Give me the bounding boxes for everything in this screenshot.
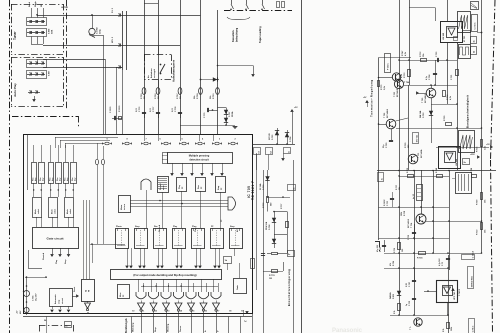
wire plus5v small [365, 100, 369, 103]
node box 2c [378, 173, 384, 182]
svg-text:mute: mute [162, 185, 165, 190]
wire net RL3 horizontal [37, 15, 201, 17]
op-amp U-autostop box [50, 289, 73, 307]
node box servo label [462, 255, 475, 260]
svg-text:C 731: C 731 [451, 74, 453, 80]
connector IC bottom pins [131, 317, 133, 333]
wire diode arrow right [201, 79, 220, 81]
op-amp U-C741 [437, 281, 458, 303]
wire y128 row [396, 128, 457, 130]
wire tape loading drop [217, 65, 253, 67]
diode D710 [267, 170, 269, 196]
diode D704 [287, 130, 289, 144]
op-amp U-ff-rew [196, 178, 206, 192]
svg-text:Multiple pressing: Multiple pressing [189, 155, 210, 158]
svg-text:T 705: T 705 [422, 97, 424, 103]
resistor R736 [419, 252, 426, 255]
op-amp U-ff2 [135, 229, 148, 249]
wire rail x447 mid [447, 42, 449, 104]
svg-text:R 1001: R 1001 [119, 105, 121, 112]
node waveform box square [459, 45, 471, 59]
svg-text:220µ: 220µ [100, 29, 102, 34]
wire rail x414 [414, 170, 416, 315]
svg-text:C 704: C 704 [32, 295, 35, 301]
wire gate out stop [68, 248, 70, 254]
wire y253 row [384, 253, 482, 255]
svg-text:R 707: R 707 [177, 93, 179, 99]
capacitor C778 [178, 112, 182, 114]
svg-text:Rew: Rew [198, 185, 200, 189]
svg-text:C 717: C 717 [380, 247, 382, 252]
resistor C731 [457, 60, 459, 85]
wire +5V arrow up [292, 112, 294, 144]
wire row y60 [399, 60, 457, 62]
svg-text:96 54A: 96 54A [259, 183, 262, 190]
op-amp U-rec-box [158, 177, 169, 193]
op-amp U-mute-ff box [118, 285, 130, 299]
svg-text:F F: F F [85, 289, 90, 293]
wire t705 base [418, 93, 426, 95]
resistor R716b [481, 140, 483, 147]
wire y268 row [384, 268, 448, 270]
svg-text:TC 9121 P: TC 9121 P [251, 180, 255, 200]
svg-text:Tonmotor-Regelung: Tonmotor-Regelung [370, 79, 374, 117]
wire multipress drops [172, 163, 174, 174]
svg-text:C 741 C: C 741 C [474, 22, 477, 30]
svg-text:R 747: R 747 [401, 50, 404, 56]
resistor R712b [408, 175, 414, 178]
svg-text:10µ 16V: 10µ 16V [36, 293, 38, 301]
svg-text:Automatic: Automatic [54, 293, 57, 304]
wire ic bottom-left bus [44, 313, 125, 315]
resistor R710b [481, 223, 483, 230]
resistor R709b [481, 193, 483, 200]
svg-text:BC 546-B: BC 546-B [407, 218, 410, 228]
svg-text:+5V: +5V [486, 144, 490, 146]
svg-text:R 706: R 706 [155, 93, 157, 99]
wire x252 vertical [252, 313, 254, 333]
wire r776 link [267, 203, 269, 212]
svg-text:Aufnahmesperre: Aufnahmesperre [172, 59, 176, 82]
svg-text:beleuchtung: beleuchtung [236, 27, 239, 42]
wire inverter outputs [141, 311, 143, 317]
wire autoplay out2 [43, 67, 122, 69]
wire y170 row [377, 170, 496, 172]
wire gate out rewind [52, 248, 54, 254]
connector autoplay pins row1 [27, 63, 45, 65]
svg-text:SR 529: SR 529 [269, 132, 271, 140]
svg-text:Stop: Stop [230, 225, 235, 228]
wire rail x447 top [447, 0, 449, 21]
svg-text:C 741 C: C 741 C [471, 325, 474, 332]
wire FF inputs [83, 200, 85, 279]
capacitor C707b [412, 280, 416, 282]
capacitor C777 [156, 112, 160, 114]
capacitor C708 [435, 60, 437, 85]
op-amp U-ff6 [211, 229, 224, 249]
node Tuner enclosure [11, 4, 63, 6]
svg-text:R 709: R 709 [213, 93, 215, 99]
wire y238 row [379, 238, 450, 240]
svg-text:R 708: R 708 [471, 168, 473, 173]
switch key row boxes [32, 163, 37, 184]
node label box right a [471, 37, 477, 44]
svg-text:D 704: D 704 [289, 136, 292, 142]
svg-text:T 704: T 704 [404, 81, 410, 84]
wire tuner top pins [31, 8, 33, 18]
svg-text:1M: 1M [269, 278, 272, 280]
wire arrow 7d [243, 310, 245, 316]
wire gate2 link [239, 263, 241, 278]
svg-text:4,7µ 16V: 4,7µ 16V [438, 258, 441, 266]
svg-text:SUB: SUB [52, 29, 54, 34]
svg-text:Panasonic: Panasonic [332, 328, 363, 333]
wire autoplay out1 [43, 59, 105, 61]
wire t706 links [379, 124, 387, 126]
wire x263 vertical [263, 170, 265, 333]
wire dash-dot inner border [66, 0, 68, 110]
svg-text:47µ 16V: 47µ 16V [376, 244, 379, 252]
svg-text:BC 548-B: BC 548-B [386, 108, 389, 118]
svg-text:LM 380: LM 380 [443, 32, 445, 40]
svg-text:circuit: circuit [61, 298, 64, 304]
capacitor C712 [414, 224, 416, 240]
svg-text:verriegelt: verriegelt [153, 69, 156, 78]
connector tape-loading pins [231, 0, 233, 4]
node box label bottom right [468, 267, 474, 289]
op-amp U-IC701 [441, 22, 463, 43]
svg-text:C 778: C 778 [175, 106, 177, 112]
op-amp U-ff-stop [216, 177, 226, 193]
svg-text:Rewind: Rewind [43, 252, 45, 260]
node box 7d2 [254, 148, 261, 155]
node label box right top [472, 15, 478, 32]
svg-text:C 711: C 711 [387, 201, 389, 206]
svg-text:R 705: R 705 [141, 93, 143, 99]
svg-text:C 712: C 712 [408, 235, 410, 240]
op-amp U-or1 [141, 179, 151, 190]
svg-text:D 915: D 915 [393, 294, 395, 299]
capacitor C776 [142, 112, 146, 114]
svg-text:R 9..: R 9.. [443, 328, 445, 332]
capacitor C779 [207, 108, 209, 112]
wire x293 vertical [293, 160, 295, 333]
wire autostop out [72, 296, 76, 298]
node pin networks row [105, 142, 109, 145]
svg-text:D 708: D 708 [269, 224, 271, 230]
svg-text:D 707: D 707 [229, 111, 231, 117]
svg-text:BC 548-B: BC 548-B [424, 93, 427, 103]
op-amp U-ff7 [230, 229, 243, 249]
svg-text:C 777: C 777 [153, 106, 155, 112]
wire tuner pin stubs bottom [31, 37, 33, 45]
wire y244 bus [90, 244, 125, 246]
op-amp U-gate-circuit box [33, 228, 79, 249]
svg-text:für: für [148, 75, 150, 78]
wire vertical bus x213 [217, 10, 219, 134]
resistor R776 [267, 197, 269, 203]
svg-text:T 703: T 703 [394, 92, 396, 97]
svg-text:Gate circuit: Gate circuit [46, 237, 63, 241]
svg-text:Wicklung: Wicklung [133, 322, 135, 332]
wire vertical bus x199 [200, 0, 202, 134]
capacitor C714 [448, 253, 450, 268]
inverter FF out [87, 301, 89, 303]
svg-text:R 719: R 719 [404, 211, 406, 216]
wire rail x482 link [477, 32, 482, 34]
connector autoplay pins row2 [27, 74, 45, 76]
switch mode-select boxes [33, 198, 42, 218]
diode D703 [429, 111, 433, 115]
svg-text:BC 548-B: BC 548-B [396, 88, 399, 97]
switch record-lock box [144, 54, 171, 56]
svg-text:Gate: Gate [236, 284, 239, 290]
svg-text:select: select [69, 209, 72, 214]
wire vertical drop a [105, 59, 107, 134]
svg-text:WA54A: WA54A [389, 292, 392, 299]
wire net MCL3 horizontal [43, 45, 180, 47]
transistor T704 [394, 79, 403, 88]
svg-text:C 1002: C 1002 [97, 26, 99, 34]
svg-text:C 776: C 776 [139, 106, 141, 112]
svg-text:hc 74: hc 74 [412, 194, 415, 199]
svg-text:C 741 B: C 741 B [458, 288, 461, 296]
connector board-edge column [122, 11, 124, 70]
node box small top right [471, 2, 479, 10]
wire rail x409 [409, 0, 411, 85]
wire y57 top link [379, 57, 412, 59]
transistor T703 [392, 73, 400, 81]
svg-text:SERVO REG: SERVO REG [471, 276, 473, 288]
svg-text:R 778: R 778 [269, 275, 275, 277]
svg-text:+25V: +25V [470, 154, 475, 156]
capacitor C713 [412, 298, 416, 300]
wire y104 link [431, 104, 457, 106]
svg-text:Auto Play: Auto Play [13, 83, 17, 97]
capacitor C1001 pair [112, 118, 122, 120]
svg-text:detection circuit: detection circuit [189, 159, 208, 162]
wire rail x421 [421, 170, 423, 214]
svg-text:T 714: T 714 [410, 222, 413, 228]
svg-text:Motor: Motor [120, 204, 123, 210]
wire y176 row [399, 176, 449, 178]
wire +25V arrow [477, 155, 480, 159]
svg-text:MCL 3: MCL 3 [112, 36, 114, 43]
svg-text:R 777: R 777 [281, 203, 283, 209]
wire ic right bus [252, 144, 295, 146]
svg-text:R 717: R 717 [396, 185, 398, 190]
svg-text:R 713: R 713 [404, 72, 406, 78]
transistor T715 [414, 318, 422, 326]
wire nested bus into matrix [27, 134, 29, 190]
wire right drops [256, 155, 258, 171]
wire C1002 drop [103, 35, 105, 134]
node box Ab [284, 148, 291, 154]
resistor R714 [431, 98, 433, 143]
svg-text:Wiederg.: Wiederg. [167, 323, 170, 332]
svg-text:R 720: R 720 [444, 115, 446, 121]
svg-text:C 708: C 708 [429, 74, 431, 80]
node label box right b [471, 47, 477, 55]
wire top entry 430 [430, 0, 432, 21]
wire y147 row [436, 147, 489, 149]
wire dash-dot corner [12, 116, 78, 118]
wire row y85 [404, 85, 457, 87]
wire C1002 stub [92, 15, 94, 28]
connector tuner pins row1 [27, 21, 45, 23]
node box 5c [288, 251, 295, 257]
svg-text:R 736: R 736 [417, 258, 423, 260]
resistor R928 [447, 323, 450, 329]
capacitor C1002 [89, 28, 95, 34]
svg-text:C 71: C 71 [442, 262, 444, 266]
svg-text:R 712: R 712 [420, 51, 422, 57]
svg-text:Stop: Stop [64, 259, 67, 264]
op-amp U-IC705 outline [24, 135, 253, 314]
op-amp U-IC702 [439, 147, 461, 169]
wire edge-to-right RL3 [127, 15, 145, 17]
op-amp U-gate2 [234, 279, 247, 294]
svg-text:Tape Loading: Tape Loading [258, 26, 262, 43]
node box 5b [288, 185, 296, 191]
svg-text:Wdgb: Wdgb [35, 1, 37, 7]
op-amp U-motor-to-turn [119, 196, 131, 213]
resistor R778 [261, 253, 265, 255]
wire vertical drop b [116, 67, 118, 134]
svg-text:C 705: C 705 [436, 51, 438, 57]
svg-text:Berührungsb.: Berührungsb. [126, 318, 128, 333]
node comb connector [456, 173, 472, 194]
wire rail x457 [457, 42, 459, 170]
wire rail x378 [378, 58, 380, 241]
inverter row [141, 301, 143, 304]
resistor R713 [408, 70, 411, 77]
wire rail x448 bottom [448, 255, 450, 333]
capacitor C709 [389, 140, 393, 142]
wire IC bottom parallel bus [23, 316, 252, 318]
svg-text:Mode: Mode [35, 209, 37, 214]
svg-text:WA 54A: WA 54A [419, 110, 422, 118]
svg-text:C 1001: C 1001 [110, 106, 112, 113]
wire vertical bus x144 [144, 0, 146, 134]
wire y221 row [426, 221, 482, 223]
op-amp U-dgate [228, 197, 236, 210]
svg-text:RD4 56A: RD4 56A [265, 221, 268, 230]
wire +5V arrow2 [451, 288, 455, 291]
svg-text:T 711: T 711 [418, 152, 420, 158]
wire upper-ff drops [146, 190, 148, 228]
wire left corner dashdot [375, 241, 379, 243]
svg-text:R 730: R 730 [405, 142, 407, 148]
op-amp U-nor row [136, 292, 146, 299]
op-amp U-ff3 [154, 229, 167, 249]
op-amp U-ff4 [173, 229, 186, 249]
svg-text:R 712: R 712 [407, 168, 409, 173]
svg-text:LM 380: LM 380 [456, 158, 458, 166]
diode D706 [218, 107, 227, 109]
wire rail x449 low [449, 170, 451, 270]
svg-text:R 714: R 714 [446, 94, 449, 100]
wire gate out play [60, 248, 62, 254]
svg-text:C 709: C 709 [386, 142, 388, 148]
op-amp U-ff-play [177, 178, 187, 192]
svg-text:T 706: T 706 [384, 112, 386, 118]
capacitor C717 [384, 240, 386, 252]
op-amp U-decoder box [111, 270, 222, 280]
svg-text:Stop: Stop [135, 225, 140, 228]
wire key row drops [33, 183, 35, 197]
wire c741 in [428, 291, 436, 293]
svg-text:Photo: Photo [116, 225, 122, 228]
wire rail x483 [481, 0, 483, 253]
svg-text:Aufnahme: Aufnahme [150, 67, 153, 78]
transistor T714 [416, 214, 426, 224]
wire top link [409, 7, 435, 9]
wire diode join [180, 125, 235, 127]
wire y315 row [390, 315, 448, 317]
op-amp U-ff1 [116, 229, 129, 249]
resistor R712 [421, 59, 427, 62]
svg-text:1µ: 1µ [406, 304, 408, 306]
node box 4b [251, 259, 255, 269]
node box 6d [266, 148, 273, 155]
node Auto-Play enclosure [11, 57, 63, 59]
wire ff-to-decoder drops [127, 248, 129, 266]
svg-text:0,33: 0,33 [406, 283, 408, 287]
svg-text:Mute: Mute [119, 293, 122, 297]
svg-text:to turn: to turn [123, 203, 126, 210]
resistor R705 oval [142, 88, 146, 95]
svg-text:T 7..: T 7.. [410, 326, 412, 330]
diode D705 [277, 128, 279, 144]
op-amp U-ff5 [192, 229, 205, 249]
wire decoder-to-gates drops [138, 279, 140, 292]
svg-text:R 775: R 775 [381, 84, 383, 90]
node waveform sawtooth 2 [459, 131, 475, 153]
svg-text:Mode: Mode [52, 209, 54, 214]
wire dash-dot chassis border left [9, 0, 11, 333]
wire ic left drop [28, 250, 30, 268]
wire vertical bus x180 [180, 0, 182, 134]
svg-text:C 779: C 779 [204, 112, 206, 118]
svg-text:D 705: D 705 [272, 134, 274, 140]
resistor R720 [446, 123, 452, 126]
svg-text:Ut 704: Ut 704 [61, 6, 68, 9]
svg-text:IC 701: IC 701 [464, 35, 466, 42]
wire y207 row [379, 207, 450, 209]
svg-text:Reset: Reset [73, 286, 76, 292]
svg-text:Pause: Pause [180, 325, 182, 332]
svg-text:R 776: R 776 [263, 202, 265, 208]
svg-text:select: select [54, 209, 57, 214]
svg-text:R 748: R 748 [435, 168, 438, 173]
wire record-lock stub [158, 45, 160, 55]
svg-text:Stop: Stop [154, 327, 157, 332]
wire vertical drop edge [122, 70, 124, 134]
node mini connector T747 [417, 185, 423, 201]
wire ic701 right link [462, 32, 470, 34]
svg-text:Einschaltverzögerung: Einschaltverzögerung [287, 269, 291, 306]
wire dash-dot border right [491, 0, 496, 160]
wire loop drop [274, 234, 276, 248]
svg-text:(For output mode deciding and: (For output mode deciding and flip-flop … [133, 273, 196, 277]
node waveform box sawtooth top [458, 12, 471, 33]
svg-text:R 716: R 716 [394, 248, 396, 253]
wire rail x433 low [433, 170, 435, 253]
node VR701 partial box [39, 325, 73, 327]
transistor T705 [426, 88, 436, 98]
svg-text:S 807: S 807 [49, 70, 51, 76]
